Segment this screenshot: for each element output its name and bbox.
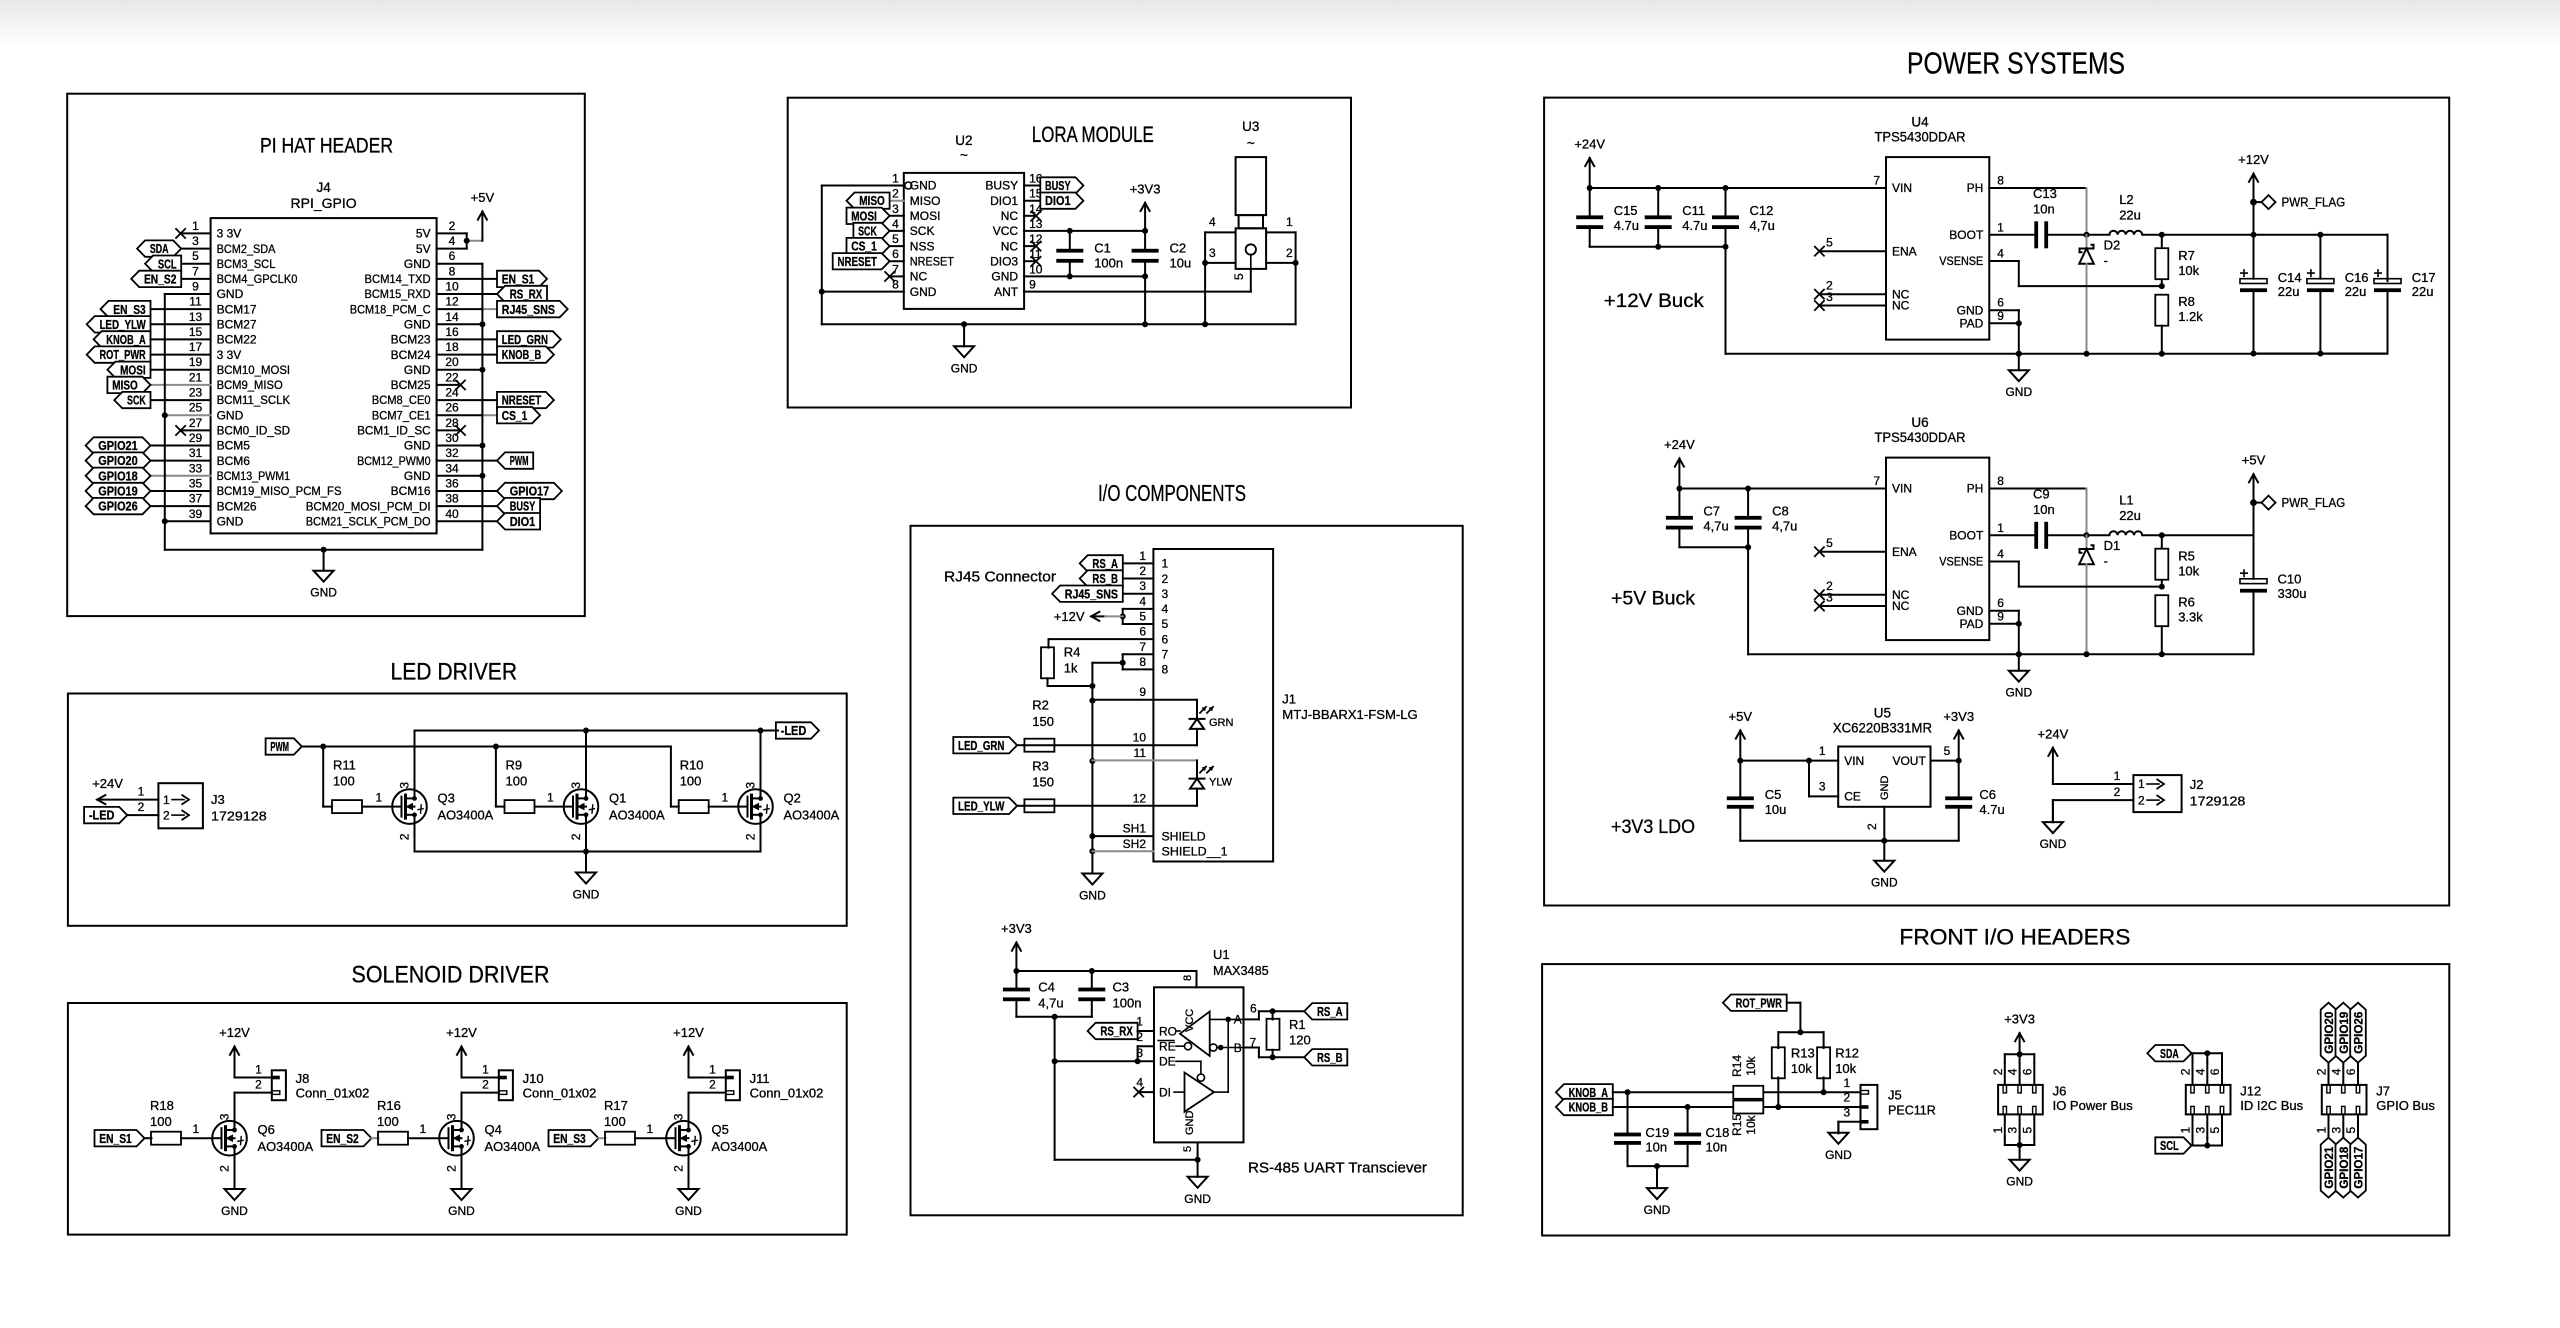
net label GPIO21: [2321, 1138, 2337, 1198]
wire driver out up: [1227, 1019, 1229, 1092]
svg-text:NC: NC: [1001, 239, 1019, 253]
svg-text:NC: NC: [910, 270, 928, 284]
svg-text:39: 39: [189, 507, 203, 521]
wire buck gnd rail: [1726, 353, 2388, 355]
svg-text:MOSI: MOSI: [851, 209, 877, 223]
svg-text:+3V3: +3V3: [1943, 709, 1974, 724]
svg-text:4.7u: 4.7u: [1614, 218, 1639, 233]
svg-text:23: 23: [189, 386, 203, 400]
capacitor polarized: [2240, 579, 2267, 584]
wire VSENSE: [1989, 260, 2019, 262]
J12 bottom stub 2: [2221, 1114, 2223, 1137]
svg-text:4: 4: [2329, 1068, 2343, 1075]
wire Q1 drain: [585, 731, 587, 790]
junction: [493, 744, 499, 750]
section frame: FRONT I/O HEADERS: [1542, 964, 2449, 1235]
svg-text:SCL: SCL: [2160, 1139, 2179, 1153]
svg-text:+3V3: +3V3: [1130, 181, 1161, 196]
svg-text:150: 150: [1032, 775, 1054, 790]
junction: [2159, 532, 2165, 538]
svg-text:SCL: SCL: [158, 257, 177, 271]
svg-text:2: 2: [1865, 823, 1879, 830]
net label GPIO17: [497, 483, 562, 499]
wire U2 pin1 gnd: [822, 185, 904, 187]
svg-text:7: 7: [192, 264, 199, 278]
U3 center pin circle: [1246, 244, 1256, 254]
svg-text:24: 24: [445, 386, 459, 400]
svg-text:6: 6: [2020, 1068, 2034, 1075]
wire J1 pin11: [1092, 759, 1197, 761]
wire 3v3 top rail: [1016, 970, 1196, 972]
svg-text:U5: U5: [1874, 705, 1891, 720]
svg-text:GPIO20: GPIO20: [98, 454, 137, 468]
net label MOSI: [107, 362, 150, 378]
svg-text:5: 5: [1826, 236, 1833, 250]
svg-text:3: 3: [2006, 1127, 2020, 1134]
wire J5 pin3: [1838, 1121, 1860, 1123]
J4 pin 27 stub: [181, 429, 211, 431]
svg-text:GND: GND: [1079, 889, 1106, 903]
junction: [1723, 244, 1729, 250]
wire U2 nc stub: [1024, 245, 1034, 247]
J4 pin 36 stub: [437, 490, 497, 492]
svg-text:BCM3_SCL: BCM3_SCL: [217, 257, 276, 271]
svg-text:D1: D1: [2104, 538, 2121, 553]
svg-text:10n: 10n: [1706, 1140, 1728, 1155]
transistor Q3: [392, 789, 427, 824]
net label SDA: [137, 240, 181, 256]
svg-text:+3V3 LDO: +3V3 LDO: [1611, 817, 1695, 838]
svg-text:4: 4: [1997, 247, 2004, 261]
svg-text:GPIO17: GPIO17: [510, 485, 549, 499]
junction: [479, 443, 485, 449]
ic U2 body: [904, 173, 1024, 309]
wire SH1: [1092, 835, 1153, 837]
net label RS_RX: [497, 286, 547, 302]
wire J12 sda join: [2193, 1052, 2223, 1054]
svg-text:5: 5: [1162, 617, 1169, 631]
wire R15 to J5: [1764, 1106, 1861, 1108]
svg-text:1: 1: [722, 791, 729, 805]
wire VCC pin8: [1196, 971, 1198, 987]
svg-text:1: 1: [647, 1122, 654, 1136]
wire ldo bottom: [1740, 840, 1958, 842]
capacitor: [1614, 1133, 1641, 1137]
no-connect: [1814, 300, 1824, 310]
svg-text:RJ45_SNS: RJ45_SNS: [1065, 587, 1118, 601]
wire J1 pin8: [1123, 668, 1154, 670]
junction: [1195, 1157, 1201, 1163]
svg-text:D2: D2: [2104, 238, 2121, 253]
J6 bottom stub 0: [2004, 1114, 2006, 1137]
svg-text:3 3V: 3 3V: [217, 227, 242, 241]
wire R14 to J5: [1764, 1091, 1861, 1093]
ground J5: [1837, 1122, 1839, 1133]
svg-text:U6: U6: [1911, 415, 1928, 430]
junction: [1135, 1058, 1141, 1064]
svg-text:+5V: +5V: [471, 190, 495, 205]
net label ROT_PWR: [1723, 995, 1787, 1011]
connector J11 body: [726, 1070, 740, 1100]
wire VSENSE: [1989, 561, 2019, 563]
J7 pin bar top 0: [2327, 1085, 2330, 1093]
ground knob filter: [1656, 1166, 1658, 1188]
svg-text:6: 6: [1162, 632, 1169, 646]
J4 pin 12 stub grey: [482, 308, 497, 310]
svg-text:NRESET: NRESET: [910, 254, 955, 268]
svg-text:GPIO17: GPIO17: [2354, 1147, 2366, 1189]
svg-text:GND: GND: [573, 888, 600, 902]
net label RS_A: [1080, 555, 1123, 571]
svg-text:10k: 10k: [1791, 1061, 1812, 1076]
svg-text:2: 2: [163, 808, 170, 822]
svg-text:BCM22: BCM22: [217, 333, 257, 347]
svg-text:VOUT: VOUT: [1892, 754, 1926, 768]
wire Q3 drain: [414, 731, 416, 790]
wire U3 pin2: [1266, 262, 1296, 264]
resistor R10: [679, 800, 709, 813]
junction: [2159, 651, 2165, 657]
svg-text:4,7u: 4,7u: [1038, 995, 1063, 1010]
wire to diode: [2086, 535, 2088, 549]
transistor Q6: [212, 1121, 247, 1156]
wire Q2 drain: [760, 731, 762, 790]
svg-text:KNOB_B: KNOB_B: [502, 348, 541, 362]
svg-text:GPIO Bus: GPIO Bus: [2376, 1098, 2435, 1113]
svg-text:3.3k: 3.3k: [2178, 610, 2203, 625]
wire PWM rail: [302, 746, 671, 748]
resistor R1: [1272, 1011, 1274, 1019]
svg-text:MISO: MISO: [859, 194, 885, 208]
svg-text:SCK: SCK: [858, 225, 877, 239]
J4 pin 24 stub: [437, 399, 497, 401]
net label KNOB_A: [94, 331, 151, 347]
svg-text:10n: 10n: [1645, 1140, 1667, 1155]
connector J6 body: [1998, 1085, 2043, 1115]
ground rj45: [1091, 873, 1093, 875]
svg-text:GND: GND: [404, 318, 431, 332]
svg-text:GPIO18: GPIO18: [98, 469, 137, 483]
resistor R17: [605, 1132, 635, 1145]
wire J11 pin2 to Q5 drain: [688, 1093, 690, 1121]
svg-text:TPS5430DDAR: TPS5430DDAR: [1875, 430, 1966, 445]
svg-text:BCM11_SCLK: BCM11_SCLK: [217, 393, 291, 407]
wire PAD pin: [1989, 322, 2019, 324]
J10 pin1 bar: [499, 1076, 507, 1080]
junction: [2159, 351, 2165, 357]
svg-text:NSS: NSS: [910, 239, 935, 253]
resistor R4: [1041, 647, 1054, 678]
net label GPIO19: [86, 483, 151, 499]
svg-text:+5V: +5V: [2242, 453, 2266, 468]
svg-text:3: 3: [672, 1113, 686, 1120]
svg-text:2: 2: [709, 1078, 716, 1092]
wire DE: [1176, 1060, 1201, 1062]
svg-text:Q1: Q1: [609, 791, 626, 806]
svg-text:EN_S3: EN_S3: [553, 1132, 586, 1146]
svg-text:RS_RX: RS_RX: [510, 288, 543, 302]
svg-text:GND: GND: [217, 408, 244, 422]
svg-text:Conn_01x02: Conn_01x02: [296, 1086, 370, 1101]
svg-text:GND: GND: [217, 287, 244, 301]
wire pin7 stub: [1244, 1047, 1259, 1049]
svg-text:DIO1: DIO1: [510, 515, 536, 529]
no-connect: [1031, 256, 1041, 266]
svg-text:CS_1: CS_1: [502, 409, 528, 423]
ic U6 body: [1886, 458, 1989, 640]
junction: [1089, 758, 1095, 764]
svg-text:RS_A: RS_A: [1092, 557, 1118, 571]
svg-text:GND: GND: [404, 439, 431, 453]
wire U2 nc stub: [1024, 215, 1034, 217]
svg-text:Q2: Q2: [784, 791, 801, 806]
svg-text:100n: 100n: [1094, 255, 1123, 270]
capacitor C10: [2253, 535, 2255, 579]
svg-text:+5V: +5V: [1729, 709, 1753, 724]
svg-text:R9: R9: [506, 758, 523, 773]
svg-text:1: 1: [1139, 549, 1146, 563]
net label EN_S1: [497, 271, 547, 287]
svg-text:L2: L2: [2119, 192, 2133, 207]
inductor L1: [2109, 531, 2142, 535]
svg-text:1: 1: [1843, 1076, 1850, 1090]
svg-text:2: 2: [892, 187, 899, 201]
wire vin rail: [1590, 187, 1886, 189]
junction: [2084, 532, 2090, 538]
wire caps bottom: [1016, 1016, 1091, 1018]
svg-text:1: 1: [1136, 1015, 1143, 1029]
J12 pin bar top 0: [2191, 1085, 2194, 1093]
wire rot_pwr down: [1799, 1003, 1801, 1032]
net label LED_GRN: [953, 737, 1017, 753]
capacitor C18: [1687, 1107, 1689, 1132]
net label ROT_PWR: [87, 346, 151, 362]
wire pin7 jog: [1258, 1048, 1260, 1058]
ground lora: [963, 324, 965, 346]
svg-text:6: 6: [1997, 296, 2004, 310]
U1 receiver triangle: [1180, 1012, 1210, 1057]
svg-text:C7: C7: [1703, 504, 1720, 519]
ground stage 1: [234, 1168, 236, 1189]
junction: [1142, 228, 1148, 234]
LED YLW: [1190, 778, 1205, 780]
wire R9 left: [496, 806, 505, 808]
wire SH2: [1092, 850, 1153, 852]
capacitor: [1727, 796, 1754, 800]
wire lora bottom gnd rail: [822, 323, 1296, 325]
svg-text:EN_S1: EN_S1: [99, 1132, 132, 1146]
wire Q2 source: [760, 824, 762, 852]
svg-text:ROT_PWR: ROT_PWR: [1736, 996, 1782, 1010]
PWR_FLAG: [2250, 199, 2257, 206]
wire J1 pin1: [1123, 562, 1154, 564]
power +24V: [97, 799, 158, 801]
svg-text:C17: C17: [2412, 270, 2436, 285]
svg-text:3: 3: [192, 234, 199, 248]
svg-text:22u: 22u: [2119, 208, 2141, 223]
svg-text:2: 2: [218, 1165, 232, 1172]
svg-text:BUSY: BUSY: [510, 500, 536, 514]
svg-text:1: 1: [709, 1063, 716, 1077]
wire pin6 stub: [1244, 1018, 1259, 1020]
J12 pin bar bottom 0: [2191, 1106, 2194, 1114]
junction: [1202, 321, 1208, 327]
wire C2 to gnd rail: [1144, 261, 1146, 325]
svg-text:C9: C9: [2033, 486, 2050, 501]
J4 pin 40 stub: [437, 520, 497, 522]
wire Q5 source to gnd: [688, 1156, 690, 1189]
wire gnd drop: [1054, 1017, 1056, 1160]
svg-text:ANT: ANT: [994, 285, 1019, 299]
capacitor: [1078, 988, 1105, 992]
svg-text:C6: C6: [1979, 787, 1996, 802]
svg-text:GND: GND: [1957, 604, 1984, 618]
net label KNOB_B: [1556, 1099, 1613, 1115]
junction: [1881, 838, 1887, 844]
net label PWM: [266, 738, 302, 754]
svg-text:40: 40: [445, 507, 459, 521]
svg-text:J12: J12: [2240, 1083, 2261, 1098]
no-connect: [1814, 590, 1824, 600]
svg-text:AO3400A: AO3400A: [609, 808, 665, 823]
svg-text:13: 13: [189, 310, 203, 324]
wire R4 bottom: [1047, 678, 1049, 686]
svg-text:10k: 10k: [1744, 1114, 1758, 1134]
J4 pin 16 stub: [437, 338, 497, 340]
svg-text:RS_A: RS_A: [1317, 1005, 1343, 1019]
svg-text:EN_S2: EN_S2: [144, 273, 177, 287]
junction: [2084, 232, 2090, 238]
wire to YLW led: [1196, 760, 1198, 778]
svg-text:BCM25: BCM25: [391, 378, 431, 392]
svg-text:GND: GND: [2040, 837, 2067, 851]
wire Q6 source to gnd: [234, 1156, 236, 1189]
wire caps to gnd rail: [1725, 247, 1727, 354]
transistor Q4: [439, 1121, 474, 1156]
svg-text:C19: C19: [1645, 1125, 1669, 1140]
svg-text:Q6: Q6: [258, 1122, 275, 1137]
capacitor C13: [2034, 221, 2038, 248]
junction: [2084, 651, 2090, 657]
svg-text:7: 7: [1873, 174, 1880, 188]
junction: [1587, 185, 1593, 191]
svg-text:GPIO26: GPIO26: [2354, 1012, 2366, 1054]
svg-text:R3: R3: [1032, 758, 1049, 773]
wire R5 top: [2161, 535, 2163, 548]
J4 pin 3 stub: [181, 248, 210, 250]
U6 NC stub: [1821, 594, 1886, 596]
junction: [2016, 651, 2022, 657]
U6 NC stub: [1821, 605, 1886, 607]
J5 pin1 bar: [1861, 1091, 1869, 1095]
svg-text:BCM15_RXD: BCM15_RXD: [365, 287, 431, 301]
svg-text:RPI_GPIO: RPI_GPIO: [291, 196, 357, 211]
wire R10 to gate: [709, 806, 739, 808]
svg-text:6: 6: [1250, 1001, 1257, 1015]
resistor R15: [1733, 1101, 1763, 1114]
svg-text:J10: J10: [523, 1071, 544, 1086]
capacitor C3: [1091, 971, 1093, 989]
svg-text:+12V: +12V: [2238, 152, 2269, 167]
wire PWM drop R9: [495, 747, 497, 807]
svg-text:2: 2: [1991, 1068, 2005, 1075]
J2 arrow: [2147, 783, 2159, 785]
svg-text:ENA: ENA: [1892, 545, 1917, 559]
no-connect: [175, 228, 185, 238]
svg-text:KNOB_A: KNOB_A: [1569, 1086, 1608, 1100]
svg-text:6: 6: [1997, 596, 2004, 610]
wire caps gnd: [1628, 1165, 1688, 1167]
svg-text:1: 1: [2315, 1127, 2329, 1134]
wire VSENSE to divider: [2019, 285, 2162, 287]
svg-text:SHIELD: SHIELD: [1162, 829, 1206, 843]
capacitor C4: [1015, 971, 1017, 989]
svg-text:BCM20_MOSI_PCM_DI: BCM20_MOSI_PCM_DI: [306, 499, 431, 513]
svg-text:RS-485 UART Transciever: RS-485 UART Transciever: [1248, 1161, 1427, 1177]
no-connect: [1814, 289, 1824, 299]
svg-text:19: 19: [189, 355, 203, 369]
svg-text:16: 16: [445, 325, 459, 339]
svg-text:J7: J7: [2376, 1083, 2390, 1098]
net label SCK: [853, 223, 889, 239]
wire to -LED label: [761, 730, 779, 732]
svg-text:BCM18_PCM_C: BCM18_PCM_C: [350, 302, 431, 316]
svg-text:FRONT I/O HEADERS: FRONT I/O HEADERS: [1899, 925, 2130, 950]
inductor L2: [2109, 231, 2142, 235]
wire J1 pin5: [1123, 623, 1154, 625]
junction: [1067, 228, 1073, 234]
capacitor C11: [1657, 188, 1659, 216]
wire 5V pins join: [466, 233, 468, 248]
svg-text:5: 5: [1826, 536, 1833, 550]
svg-text:U4: U4: [1911, 115, 1929, 130]
junction: [1655, 244, 1661, 250]
svg-text:AO3400A: AO3400A: [485, 1139, 541, 1154]
svg-text:1: 1: [1991, 1127, 2005, 1134]
wire J1 pin7: [1123, 653, 1154, 655]
wire pins45 join: [1122, 609, 1124, 624]
U1 driver triangle: [1185, 1073, 1215, 1112]
wire gnd bottom: [1055, 1159, 1198, 1161]
J6 top stub 0: [2004, 1063, 2006, 1085]
svg-text:1: 1: [138, 785, 145, 799]
wire pins23 join: [1137, 1046, 1139, 1061]
net label DIO1: [1040, 193, 1083, 209]
junction: [961, 321, 967, 327]
wire pin7 to RS_B: [1259, 1056, 1304, 1058]
net label CS_1: [497, 407, 540, 423]
J4 pin 22 stub: [437, 384, 459, 386]
net label GPIO20: [2321, 1003, 2337, 1063]
capacitor: [1945, 796, 1972, 800]
svg-text:3: 3: [1826, 290, 1833, 304]
svg-text:C16: C16: [2345, 270, 2369, 285]
wire bus to pins23: [1055, 1060, 1138, 1062]
wire RS_RX stub: [1138, 1030, 1154, 1032]
svg-text:4: 4: [1997, 547, 2004, 561]
svg-text:5: 5: [2344, 1127, 2358, 1134]
J4 pin 28 stub: [437, 429, 459, 431]
svg-text:1729128: 1729128: [2190, 794, 2246, 809]
wire LED_YLW to R3: [1017, 805, 1024, 807]
svg-text:5: 5: [192, 249, 199, 263]
wire pins78 join: [1122, 654, 1124, 669]
wire to J11 pin1: [689, 1077, 726, 1079]
junction: [1797, 1029, 1803, 1035]
wire J5 pin3 down: [1837, 1122, 1839, 1134]
svg-text:BCM26: BCM26: [217, 499, 257, 513]
wire inductor out: [2142, 534, 2253, 536]
